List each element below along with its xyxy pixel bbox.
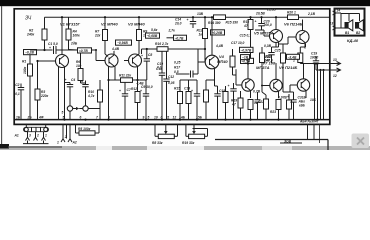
svg-text:V1 КТ315Г: V1 КТ315Г <box>60 22 81 27</box>
svg-text:47: 47 <box>265 58 270 62</box>
svg-text:100,0: 100,0 <box>310 56 318 60</box>
connector A2 pins <box>57 125 77 145</box>
svg-text:4,4В: 4,4В <box>215 44 224 48</box>
svg-text:100к: 100к <box>73 34 81 38</box>
pin arrow 13 out <box>329 58 341 66</box>
svg-text:4,4В: 4,4В <box>111 47 120 51</box>
svg-text:С9 10,0: С9 10,0 <box>141 85 153 89</box>
svg-text:0,3В: 0,3В <box>264 44 272 48</box>
jack connector pair X3 <box>62 106 101 120</box>
svg-text:4,7к: 4,7к <box>87 94 95 98</box>
svg-text:220к: 220к <box>40 94 49 98</box>
transistor V5 <box>264 16 283 47</box>
loudspeaker B1 <box>345 20 353 35</box>
capacitor C2 <box>15 83 24 120</box>
capacitor C11 <box>156 51 165 119</box>
svg-text:5,6к: 5,6к <box>151 28 158 32</box>
resistor R4 <box>66 17 80 49</box>
svg-text:С2: С2 <box>15 83 19 87</box>
resistor R2 <box>26 17 47 50</box>
svg-text:V9 П214Б: V9 П214Б <box>279 65 298 70</box>
resistor R15 <box>174 80 183 120</box>
svg-text:R14 390: R14 390 <box>208 21 221 25</box>
svg-text:МП37А: МП37А <box>256 65 270 70</box>
wire V1 collector to 0,7V box <box>69 49 78 52</box>
speaker unit box <box>335 9 365 36</box>
svg-text:0,1: 0,1 <box>15 92 20 96</box>
resistor R1 <box>22 55 33 120</box>
loudspeaker B2 <box>355 20 363 35</box>
pin arrow 12 out <box>329 68 341 78</box>
capacitor C12 <box>163 51 174 119</box>
capacitor C14 <box>174 16 196 28</box>
svg-text:20,5В: 20,5В <box>255 12 265 16</box>
capacitor C20 <box>255 16 272 30</box>
svg-text:2,1В: 2,1В <box>307 12 316 16</box>
voltage label node -1V <box>241 55 250 60</box>
svg-text:С4: С4 <box>71 78 75 82</box>
svg-text:С15 0,1: С15 0,1 <box>240 34 252 38</box>
svg-text:V6 П214Б: V6 П214Б <box>284 22 303 27</box>
svg-text:2,7к: 2,7к <box>168 29 176 33</box>
resistor R9 <box>137 16 148 54</box>
image placeholder square with X <box>352 134 370 149</box>
capacitor C18 <box>228 83 237 120</box>
resistor R10 <box>87 80 103 120</box>
svg-text:А2: А2 <box>72 141 77 145</box>
connector X1 bar <box>24 127 49 131</box>
resistor R22 <box>275 44 291 92</box>
svg-text:R19 33к: R19 33к <box>182 141 195 145</box>
capacitor C8 <box>141 49 152 80</box>
wire X1 bottom link <box>23 141 49 144</box>
svg-text:7: 7 <box>96 116 98 120</box>
pin 13 speaker <box>330 22 342 31</box>
resistor R3 <box>35 61 49 120</box>
wire V4 emitter row <box>206 80 218 86</box>
svg-text:12: 12 <box>333 74 337 78</box>
wire V4 base from y49 <box>198 48 206 62</box>
wire V5 emitter to V6 base <box>279 37 289 44</box>
svg-text:6: 6 <box>80 116 82 120</box>
wire V1 out to V2 base <box>92 49 98 61</box>
voltage label node -0,94V <box>116 40 132 45</box>
resistor R30 <box>287 94 292 120</box>
junction dots on ground bus <box>63 119 318 121</box>
svg-text:+: + <box>119 89 121 93</box>
wire mid link C17 <box>247 66 250 68</box>
resistor R11 <box>107 74 146 83</box>
svg-text:В1: В1 <box>345 31 349 35</box>
transistor V2 <box>96 22 121 120</box>
svg-text:22к: 22к <box>94 34 101 38</box>
wire X1 drop from bus <box>26 124 45 128</box>
resistor R24 <box>291 44 306 64</box>
resistor R12 <box>131 79 140 120</box>
left page edge line <box>1 6 3 147</box>
resistor R13 <box>197 16 208 49</box>
svg-text:10: 10 <box>154 116 158 120</box>
svg-text:+: + <box>287 95 289 99</box>
capacitor C16 coupling <box>176 62 198 78</box>
svg-text:С17 10,0: С17 10,0 <box>231 41 245 45</box>
svg-text:1: 1 <box>45 134 47 138</box>
transistor V4 <box>198 16 228 86</box>
svg-text:0,05: 0,05 <box>168 81 175 85</box>
pin 14 <box>333 9 342 15</box>
svg-text:200,0: 200,0 <box>263 23 272 27</box>
transistor V7 <box>236 64 254 99</box>
resistor R20 (in bus) <box>287 11 299 20</box>
svg-text:2: 2 <box>36 134 39 138</box>
page background <box>0 0 370 150</box>
svg-text:−0,26В: −0,26В <box>212 31 223 35</box>
svg-text:+: + <box>49 46 51 50</box>
transistor V9 <box>290 64 310 99</box>
svg-text:12: 12 <box>173 116 177 120</box>
wire bottom right verticals <box>308 125 320 143</box>
svg-text:+: + <box>191 89 193 93</box>
pin 2 <box>34 132 40 141</box>
svg-text:10к: 10к <box>76 64 82 68</box>
svg-text:−3,4В: −3,4В <box>288 55 298 59</box>
resistor R16 <box>155 42 169 51</box>
svg-text:≈0,7В: ≈0,7В <box>79 49 88 53</box>
svg-text:к9Б: к9Б <box>299 104 306 108</box>
capacitor C4 <box>65 78 76 106</box>
capacitor C15 <box>214 86 225 120</box>
svg-text:0,7В: 0,7В <box>253 90 261 94</box>
svg-text:−0,68В: −0,68В <box>147 34 158 38</box>
wire bottom output box <box>215 140 328 151</box>
svg-text:5: 5 <box>62 111 64 115</box>
wire output stage emitters <box>272 43 279 48</box>
svg-text:R1: R1 <box>22 60 26 64</box>
svg-text:V3 МП40: V3 МП40 <box>128 22 145 27</box>
resistor R19b <box>223 86 228 120</box>
svg-text:R15 330: R15 330 <box>226 21 239 25</box>
label V7 GT108 <box>256 60 276 70</box>
resistor R6 <box>76 53 83 83</box>
resistor R14 (in bus) <box>208 15 226 25</box>
svg-text:240к: 240к <box>26 33 35 37</box>
resistor R21 <box>260 47 272 86</box>
svg-text:+: + <box>228 84 230 88</box>
svg-text:R8 33к: R8 33к <box>152 141 163 145</box>
node dot base V1 <box>36 60 38 62</box>
schematic frame <box>14 9 330 125</box>
svg-text:С8: С8 <box>148 53 152 57</box>
wire V5/V6 collector feeds <box>233 30 294 95</box>
node numbers on ground bus mid <box>143 116 203 120</box>
svg-text:100к: 100к <box>23 66 27 74</box>
svg-text:R20 1: R20 1 <box>287 11 296 15</box>
transistor V6 <box>288 20 309 49</box>
voltage label node -0,7V <box>167 35 187 40</box>
svg-text:20,0: 20,0 <box>174 22 182 26</box>
transistor V8 <box>261 63 282 98</box>
transistor V1 <box>50 17 81 119</box>
svg-text:0,5: 0,5 <box>174 70 179 74</box>
capacitor C22 <box>287 92 297 120</box>
svg-text:2Б: 2Б <box>27 116 33 120</box>
label C23 values <box>298 96 317 108</box>
svg-text:14: 14 <box>337 9 341 13</box>
wire output node y63 <box>300 62 329 64</box>
voltage label node -0,26V <box>211 30 225 35</box>
capacitor C1 <box>45 42 78 54</box>
svg-text:21,5В: 21,5В <box>266 8 276 12</box>
resistor R17b vertical <box>230 41 245 75</box>
pin 1 <box>42 132 48 141</box>
svg-text:−0,94В: −0,94В <box>117 41 128 45</box>
wire right verticals to bottom <box>315 64 324 120</box>
svg-text:С25: С25 <box>275 49 281 53</box>
svg-text:КД-40: КД-40 <box>347 38 359 43</box>
svg-text:0,25: 0,25 <box>174 61 181 65</box>
svg-text:9: 9 <box>143 116 145 120</box>
capacitor C6 <box>81 80 89 106</box>
svg-text:В2: В2 <box>356 31 360 35</box>
svg-text:−0,7В: −0,7В <box>175 36 185 40</box>
voltage label node 0,5A <box>241 58 254 63</box>
bottom-left black mark <box>0 144 9 149</box>
resistor R23 <box>270 100 281 120</box>
capacitor C9 <box>140 80 153 120</box>
node dot C1/R2 <box>43 49 45 51</box>
svg-text:R17: R17 <box>174 66 180 70</box>
svg-text:10Б: 10Б <box>310 98 317 102</box>
top black bar <box>0 0 370 6</box>
potentiometer R8 <box>152 125 178 145</box>
svg-text:13В: 13В <box>197 12 204 16</box>
resistor R26 <box>231 91 243 120</box>
voltage label node -0,68V <box>146 33 160 38</box>
wire base V1 <box>38 60 51 62</box>
svg-text:V2 МП40: V2 МП40 <box>101 22 118 27</box>
resistor R7 <box>94 16 108 54</box>
svg-text:ЗЧ: ЗЧ <box>25 16 32 22</box>
svg-text:МП40: МП40 <box>217 59 228 64</box>
svg-text:−0,97В: −0,97В <box>241 49 252 53</box>
potentiometer R19 <box>182 125 208 145</box>
pin 3 <box>26 132 32 141</box>
capacitor C24 <box>255 92 261 120</box>
label C16 0,25 <box>174 61 181 75</box>
voltage label node -3,4V <box>287 54 300 59</box>
svg-text:С13: С13 <box>184 87 190 91</box>
svg-text:0,97В: 0,97В <box>278 96 287 100</box>
svg-text:13: 13 <box>333 58 337 62</box>
svg-text:5: 5 <box>148 116 150 120</box>
svg-text:1к: 1к <box>199 33 203 37</box>
svg-text:13: 13 <box>330 22 334 26</box>
svg-text:+: + <box>255 20 257 24</box>
voltage label node -0,2V <box>24 50 37 55</box>
svg-text:0,1: 0,1 <box>157 65 162 69</box>
svg-text:R12: R12 <box>131 87 137 91</box>
svg-text:1Б: 1Б <box>16 116 21 120</box>
wire C1 to R1 node <box>30 49 45 51</box>
wire stage coupling y49 <box>142 48 206 54</box>
svg-text:2: 2 <box>64 135 67 139</box>
resistor R5 <box>76 125 100 136</box>
wire top supply bus <box>45 16 330 18</box>
svg-text:11: 11 <box>166 116 170 120</box>
wire lower mid <box>180 79 197 81</box>
svg-text:ЗОВ: ЗОВ <box>284 140 292 144</box>
svg-text:С12: С12 <box>168 75 174 79</box>
capacitor C21 <box>264 44 275 63</box>
svg-text:R11 22к: R11 22к <box>119 74 131 78</box>
svg-text:А1: А1 <box>14 134 19 138</box>
wire emitter network <box>65 82 86 85</box>
voltage label node -0,97V <box>240 47 254 52</box>
bottom gray band <box>0 146 370 150</box>
capacitor C7 <box>119 82 131 119</box>
wire output node y70 <box>316 69 329 71</box>
resistor R27 <box>248 100 258 120</box>
svg-text:−0,2В: −0,2В <box>25 51 35 55</box>
node dot V1 collector bus <box>61 16 63 18</box>
svg-text:+: + <box>140 89 142 93</box>
capacitor C13 <box>191 80 200 120</box>
svg-text:2дБ: 2дБ <box>70 42 78 46</box>
wire speaker box <box>341 13 360 28</box>
node numbers on ground bus left <box>16 116 110 120</box>
svg-text:1: 1 <box>57 141 59 145</box>
transistor V3 <box>124 22 145 80</box>
svg-text:R15: R15 <box>174 87 180 91</box>
svg-text:+: + <box>65 78 67 82</box>
svg-text:R16 2,7к: R16 2,7к <box>155 42 169 46</box>
svg-text:4,4В: 4,4В <box>136 82 145 86</box>
resistor R18a <box>184 80 191 120</box>
wire ground bus <box>15 119 329 121</box>
svg-text:47: 47 <box>243 24 248 28</box>
svg-text:47: 47 <box>231 103 236 107</box>
label C10 0,1 <box>157 62 163 69</box>
resistor R18 top <box>243 16 253 58</box>
svg-text:3: 3 <box>29 134 31 138</box>
svg-text:4Ф: 4Ф <box>38 116 44 120</box>
svg-text:R5 100к: R5 100к <box>78 127 91 131</box>
svg-text:+: + <box>187 18 189 22</box>
svg-text:+: + <box>141 54 143 58</box>
resistor R17 <box>204 80 209 120</box>
voltage label node 0,7V <box>78 48 92 53</box>
svg-text:R23: R23 <box>270 110 276 114</box>
capacitor C19 output <box>310 52 319 71</box>
resistor R28 <box>258 95 269 120</box>
